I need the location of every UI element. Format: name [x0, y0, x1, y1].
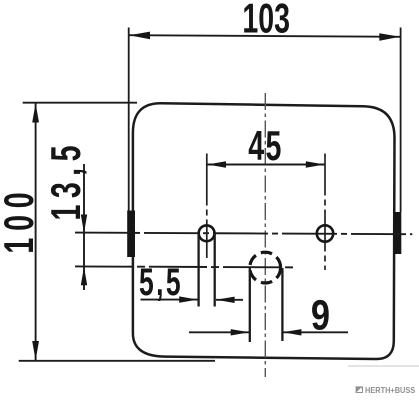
dimension 9 line left part: [189, 331, 250, 333]
dimension 5,5 arrow right: [179, 296, 198, 302]
left slot line right: [214, 234, 216, 307]
dimension 103 arrow right: [379, 33, 400, 41]
center slot line left: [249, 268, 251, 342]
dimension 45 arrow right: [306, 161, 325, 167]
dimension 13,5 arrow down: [81, 215, 87, 233]
vertical centerline: [264, 93, 266, 377]
dimension 100 line: [35, 103, 37, 361]
right mounting tab: [394, 212, 402, 254]
center slot line right: [281, 268, 283, 341]
dimension 100 bottom extension line: [19, 360, 215, 362]
svg-text:13,5: 13,5: [41, 139, 89, 220]
lamp body outline: [133, 103, 395, 359]
horizontal centerline A through small holes: [75, 233, 412, 235]
dimension 103 extension line left: [128, 28, 130, 212]
dimension 5,5 arrow left: [216, 297, 235, 303]
dimension 13,5 arrow up: [81, 267, 87, 285]
page edge faint line: [348, 365, 419, 367]
svg-text:HERTH+BUSS: HERTH+BUSS: [365, 385, 415, 394]
HERTH+BUSS logo icon: [356, 386, 363, 393]
dimension 5,5 line right part: [216, 299, 243, 301]
dimension 100 arrow bottom: [32, 341, 39, 360]
svg-text:103: 103: [242, 0, 290, 42]
center hole (hidden, dashed): [250, 252, 281, 283]
right mounting hole: [317, 225, 333, 241]
svg-text:45: 45: [248, 121, 282, 169]
svg-text:5,5: 5,5: [139, 261, 183, 304]
dimension 103 extension line right: [400, 28, 402, 213]
dimension 13,5 line: [83, 164, 85, 290]
dimension 45 extension line left: [206, 154, 208, 259]
dimension 9 arrow left: [283, 329, 302, 335]
dimension 45 line: [207, 164, 325, 166]
dimension 100 arrow top: [32, 103, 39, 122]
dimension 103 arrow left: [129, 32, 150, 40]
dimension 103 line: [129, 35, 401, 37]
dimension 45 arrow left: [207, 161, 226, 167]
dimension 9 line right part: [283, 331, 348, 333]
svg-text:100: 100: [0, 186, 42, 254]
left mounting hole: [199, 225, 215, 241]
left mounting tab: [127, 211, 135, 258]
dimension 45 extension line right: [324, 154, 326, 271]
dimension 100 top extension line: [23, 102, 137, 104]
svg-text:9: 9: [311, 292, 330, 339]
horizontal centerline B through big hole: [75, 266, 296, 267]
dimension 9 arrow right: [231, 329, 250, 335]
left slot line left: [197, 234, 199, 307]
dimension 5,5 line left part: [141, 299, 198, 301]
